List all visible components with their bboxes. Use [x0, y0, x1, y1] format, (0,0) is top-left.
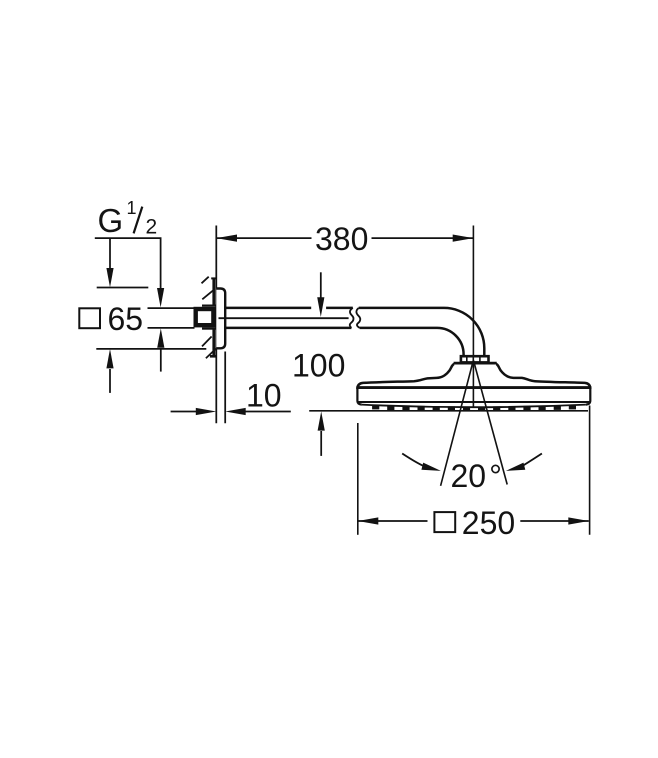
- face level line: [309, 410, 588, 412]
- spray nozzles: [372, 405, 576, 412]
- ext line 65 top: [97, 287, 149, 289]
- shower head top profile: [357, 364, 590, 389]
- dim 65 upper arrow: [109, 238, 111, 268]
- square symbol 65: [79, 308, 100, 328]
- svg-text:65: 65: [108, 301, 144, 337]
- head rim bottom line: [358, 401, 590, 403]
- thread nipple: [196, 309, 214, 325]
- mound top shelf: [454, 362, 497, 365]
- arm centre extension line: [219, 317, 349, 319]
- arc arrow right: [520, 454, 542, 468]
- dim 380 arrows: [216, 235, 237, 242]
- dim 10 line left: [171, 411, 197, 413]
- svg-text:20°: 20°: [451, 458, 502, 494]
- ext line 65 bottom: [96, 348, 206, 350]
- G upper arrow: [157, 288, 164, 307]
- ball joint collar: [461, 356, 489, 362]
- dim 250 arrows: [358, 517, 379, 524]
- dim 250 line: [358, 520, 589, 522]
- head rim top line: [357, 386, 590, 389]
- G lower arrow: [160, 348, 162, 372]
- dim 100 upper arrow: [320, 272, 322, 297]
- svg-text:10: 10: [246, 378, 282, 414]
- dim 65 lower arrow: [109, 369, 111, 393]
- ext line 250 right: [589, 406, 591, 535]
- ext line 250 left: [357, 423, 359, 535]
- head right edge: [586, 386, 590, 404]
- dim 10 line right: [246, 411, 291, 413]
- svg-text:G: G: [98, 202, 124, 239]
- shower arm top line: [225, 307, 444, 310]
- G leader line: [95, 238, 161, 290]
- wall line: [215, 226, 217, 424]
- shower arm bottom line: [225, 327, 437, 330]
- escutcheon plate: [216, 289, 225, 349]
- angle line left: [441, 361, 474, 486]
- angle line right: [474, 361, 508, 485]
- svg-text:380: 380: [315, 221, 368, 257]
- centre line: [472, 226, 474, 408]
- mounting flange bottom: [212, 330, 215, 357]
- wall hatch marks: [202, 277, 217, 359]
- svg-text:1: 1: [127, 198, 137, 218]
- head spray face: [362, 405, 586, 408]
- dim 100 lower arrow: [320, 431, 322, 456]
- dim 380 line: [216, 237, 473, 239]
- arc arrow left: [402, 454, 426, 468]
- collar ticks: [467, 356, 480, 362]
- plate edge extension: [224, 352, 226, 424]
- svg-text:2: 2: [146, 216, 158, 239]
- svg-text:100: 100: [292, 348, 345, 384]
- supply pipe stub: [148, 308, 195, 328]
- break squiggle left: [350, 308, 354, 328]
- arm elbow outer: [444, 308, 484, 357]
- dim 10 arrows: [196, 408, 217, 415]
- head left edge: [357, 386, 361, 404]
- break squiggle right: [356, 308, 360, 328]
- arm elbow inner: [437, 328, 464, 357]
- mounting flange top: [212, 278, 215, 305]
- square symbol 250: [434, 512, 455, 532]
- svg-text:250: 250: [462, 505, 515, 541]
